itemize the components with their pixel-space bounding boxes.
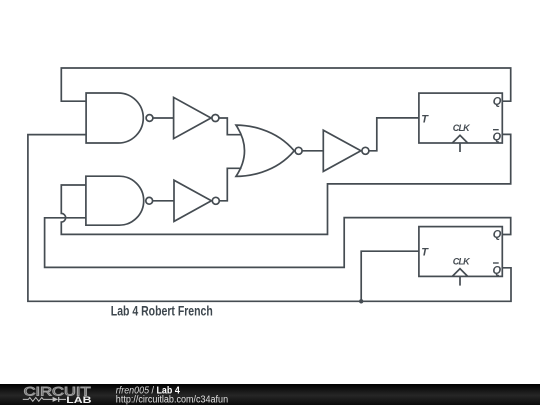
wire branch to FF2 T input xyxy=(361,251,419,301)
inverter triangle (top) xyxy=(174,97,211,138)
wire NOR out to INV3 in xyxy=(302,150,323,152)
inv2 output bubble xyxy=(212,197,219,204)
svg-text:T: T xyxy=(421,247,429,259)
wire net FF2.Qbar to NAND1 input B xyxy=(28,135,511,302)
inv3 output bubble xyxy=(362,147,369,154)
logo resistor zigzag xyxy=(23,398,53,402)
wire INV2 out to NOR input B xyxy=(219,168,241,201)
inverter triangle (bottom) xyxy=(174,180,211,221)
wire NAND1 out to INV1 in xyxy=(153,117,174,119)
CircuitLab logo and footer text xyxy=(0,384,300,405)
flip-flop box FF1 xyxy=(419,93,502,143)
FF1 clock stub xyxy=(459,143,461,152)
nor gate body xyxy=(236,125,294,176)
svg-text:Q: Q xyxy=(493,229,502,241)
nand gate body (top) xyxy=(86,93,143,143)
flip-flop box FF2 xyxy=(419,227,502,277)
nand2 output bubble xyxy=(146,197,153,204)
nor output bubble xyxy=(295,147,302,154)
wire net FF1.Q to NAND1 input A (top feedback) xyxy=(61,68,510,101)
wire INV1 out to NOR input A xyxy=(219,118,242,135)
nand gate body (bottom) xyxy=(86,176,144,225)
FF1 clock edge triangle xyxy=(452,135,467,143)
svg-text:CLK: CLK xyxy=(453,123,471,133)
svg-text:Q: Q xyxy=(493,265,502,277)
junction dot xyxy=(359,299,363,303)
svg-text:T: T xyxy=(421,113,429,125)
wire net FF2.Q to NAND2 input B xyxy=(45,218,511,268)
logo diode xyxy=(53,397,59,402)
nand1 output bubble xyxy=(146,115,153,122)
svg-text:Q: Q xyxy=(493,131,502,143)
FF2 clock edge triangle xyxy=(452,269,467,277)
svg-text:Lab 4 Robert French: Lab 4 Robert French xyxy=(111,302,213,318)
svg-text:CLK: CLK xyxy=(453,256,471,266)
inv1 output bubble xyxy=(212,115,219,122)
inverter triangle (after nor) xyxy=(323,130,361,171)
FF2 clock stub xyxy=(459,276,461,285)
footer black bar xyxy=(0,384,540,405)
wire NAND2 out to INV2 in xyxy=(153,200,174,202)
wire net FF1.Qbar to NAND2 input A (with hop) xyxy=(61,134,510,234)
wire INV3 out to FF1 T input xyxy=(369,118,419,151)
svg-text:http://circuitlab.com/c34afun: http://circuitlab.com/c34afun xyxy=(116,394,228,405)
svg-text:Q: Q xyxy=(493,95,502,107)
svg-text:LAB: LAB xyxy=(66,395,92,405)
